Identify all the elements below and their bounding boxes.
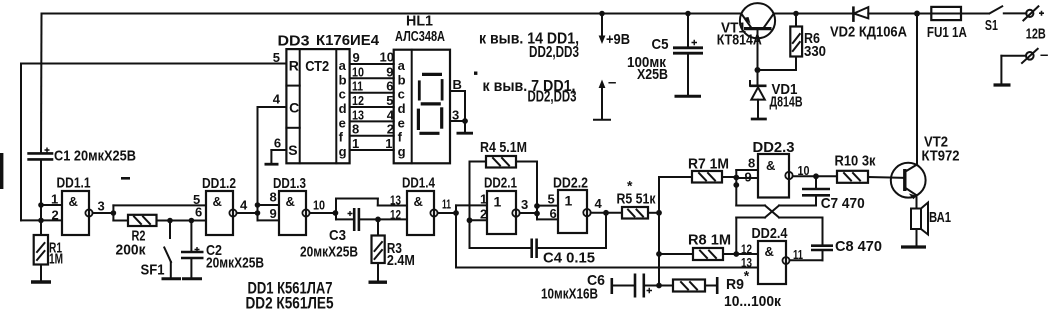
- svg-text:e: e: [398, 115, 405, 130]
- svg-text:HL1: HL1: [406, 14, 433, 30]
- resistor R9 10...100k adjustable: [659, 268, 781, 311]
- svg-text:СТ2: СТ2: [305, 59, 329, 75]
- svg-text:–: –: [1040, 47, 1048, 64]
- svg-text:6: 6: [195, 205, 202, 220]
- transistor VT2 KT972: [891, 135, 960, 209]
- wire DD3 d to HL1 pin5: [350, 93, 394, 108]
- svg-text:13: 13: [390, 193, 401, 208]
- pin 5 label DD3 R: [273, 50, 280, 65]
- svg-text:9: 9: [270, 206, 277, 221]
- wire cross-coupling C7 to DD2.4 input: [736, 206, 816, 255]
- svg-text:10: 10: [313, 198, 325, 213]
- svg-text:2: 2: [52, 208, 59, 223]
- wire to DD2.4 pin 13: [456, 267, 758, 269]
- capacitor C8 470: [790, 238, 883, 260]
- svg-text:Х25В: Х25В: [637, 66, 668, 83]
- svg-text:ВА1: ВА1: [929, 210, 951, 226]
- op-amp gate DD1.2: [193, 176, 248, 235]
- capacitor C7 470: [802, 176, 865, 212]
- op-amp gate DD2.4: [741, 226, 803, 284]
- svg-text:DD2 К561ЛЕ5: DD2 К561ЛЕ5: [246, 295, 334, 313]
- svg-text:13: 13: [741, 255, 752, 270]
- transistor VT1 KT814A: [717, 3, 775, 70]
- svg-text:10: 10: [380, 50, 394, 65]
- junction node DD1.1 pin1: [38, 202, 62, 208]
- resistor R3 2.4M: [372, 236, 415, 282]
- svg-text:10...100к: 10...100к: [724, 293, 781, 310]
- pin B of HL1: [450, 77, 465, 92]
- svg-text:a: a: [339, 58, 347, 73]
- svg-text:4: 4: [240, 198, 248, 213]
- svg-text:С3: С3: [329, 227, 346, 244]
- scan speck marks: [0, 72, 477, 190]
- switch SF1: [141, 221, 182, 279]
- svg-text:13: 13: [352, 107, 364, 122]
- resistor R2 200k: [116, 215, 207, 259]
- svg-text:g: g: [339, 144, 347, 159]
- svg-text:К176ИЕ4: К176ИЕ4: [316, 33, 379, 49]
- svg-text:DD2.4: DD2.4: [752, 226, 788, 242]
- svg-text:C: C: [289, 100, 299, 116]
- wire DD3 a to HL1 pin10: [350, 50, 394, 66]
- svg-text:R5 51к: R5 51к: [617, 191, 656, 208]
- svg-text:330: 330: [804, 43, 826, 60]
- svg-text:10: 10: [352, 64, 364, 79]
- wire DD3 e to HL1 pin4: [350, 107, 395, 122]
- node +9B flag arrow: [599, 14, 631, 49]
- connector +12V: [1004, 6, 1046, 42]
- svg-text:&: &: [765, 244, 774, 259]
- svg-text:12: 12: [352, 93, 364, 108]
- junction DD2.2 output: [591, 210, 622, 216]
- ground below BA1: [901, 245, 926, 248]
- svg-text:С5: С5: [652, 36, 669, 53]
- capacitor C3 20mkX25V: [300, 208, 378, 261]
- svg-text:e: e: [339, 115, 346, 130]
- svg-text:1: 1: [480, 192, 487, 207]
- op-amp gate DD1.4: [390, 176, 451, 236]
- resistor R8 1M: [656, 232, 758, 261]
- svg-text:1: 1: [385, 136, 392, 151]
- svg-text:–: –: [608, 74, 616, 91]
- svg-text:С1 20мкХ25В: С1 20мкХ25В: [54, 148, 136, 165]
- wire +9V top rail: [42, 13, 990, 15]
- svg-text:9: 9: [386, 64, 393, 79]
- capacitor C2 20mkX25V: [181, 221, 264, 279]
- resistor R5 51k: [617, 178, 660, 219]
- switch S1: [985, 6, 1002, 34]
- ground top right: [994, 83, 1011, 86]
- svg-text:9: 9: [745, 170, 752, 185]
- junction SF1 top: [167, 218, 173, 224]
- wire DD3 c to HL1 pin6: [350, 79, 394, 94]
- svg-text:6: 6: [550, 206, 557, 221]
- junction VT1 base / R6 / VD1: [755, 67, 761, 73]
- svg-text:1: 1: [565, 193, 573, 209]
- wire DD2.3 output to R10: [793, 173, 837, 179]
- svg-text:4: 4: [595, 196, 603, 211]
- junction on +9V rail at x=796: [793, 11, 799, 17]
- seven segment digit inside HL1: [418, 74, 442, 133]
- svg-text:20мкХ25В: 20мкХ25В: [206, 255, 264, 272]
- svg-text:20мкХ25В: 20мкХ25В: [300, 244, 358, 261]
- svg-text:DD2.1: DD2.1: [484, 176, 517, 192]
- svg-text:КТ972: КТ972: [922, 149, 960, 165]
- capacitor C6 10mkX16V: [541, 272, 659, 303]
- svg-text:DD1.4: DD1.4: [402, 176, 435, 192]
- wire DD1.3 output node: [310, 199, 407, 220]
- svg-text:11: 11: [352, 79, 363, 94]
- wire DD1.1 output node: [93, 205, 206, 220]
- label k vyv. 7 DD1, DD2, DD3: [483, 78, 577, 106]
- speaker BA1: [911, 203, 951, 247]
- junction C6 / R9: [656, 283, 662, 289]
- svg-text:Д814В: Д814В: [770, 95, 803, 111]
- svg-text:DD3: DD3: [278, 34, 310, 50]
- resistor R7 1M: [688, 156, 736, 183]
- zener diode VD1 D814V: [750, 70, 803, 119]
- svg-text:&: &: [69, 194, 78, 209]
- svg-text:С4 0.15: С4 0.15: [543, 250, 595, 267]
- svg-text:С8 470: С8 470: [835, 238, 882, 255]
- wire R5 output node vertical: [656, 177, 692, 286]
- capacitor C5 100mk X25V: [627, 14, 703, 97]
- junction on +9V rail at x=688: [685, 11, 691, 17]
- ground below R3: [369, 281, 388, 284]
- resistor R4 5.1M feedback: [470, 139, 538, 248]
- svg-text:В: В: [453, 77, 462, 92]
- svg-text:f: f: [339, 130, 344, 145]
- svg-text:VD2 КД106А: VD2 КД106А: [830, 25, 907, 41]
- svg-text:5: 5: [273, 50, 280, 65]
- ground below R1: [31, 280, 51, 283]
- svg-text:8: 8: [748, 156, 755, 171]
- svg-text:FU1 1А: FU1 1А: [927, 25, 967, 41]
- display HL1 ALS348A: [394, 14, 450, 164]
- svg-text:9: 9: [353, 50, 360, 65]
- svg-text:1: 1: [51, 192, 58, 207]
- svg-text:200к: 200к: [116, 242, 146, 259]
- wire DD2.1 output node junctions: [520, 203, 558, 219]
- svg-text:10мкХ16В: 10мкХ16В: [541, 286, 598, 303]
- label k vyv. 14 DD1, DD2, DD3: [479, 31, 579, 62]
- svg-text:11: 11: [442, 197, 451, 212]
- svg-text:1: 1: [494, 194, 502, 210]
- op-amp gate DD2.3: [745, 140, 810, 198]
- svg-text:c: c: [339, 87, 346, 102]
- svg-text:d: d: [339, 101, 347, 116]
- junction on +9V rail at x=602: [599, 11, 605, 17]
- wire VD2 node to VT2 collector: [916, 14, 918, 165]
- svg-text:&: &: [213, 194, 222, 209]
- fuse FU1 1A: [927, 7, 967, 41]
- svg-text:b: b: [339, 72, 347, 87]
- pin 6 DD3 S with termination: [265, 136, 287, 165]
- svg-text:6: 6: [274, 136, 281, 151]
- svg-text:8: 8: [352, 122, 359, 137]
- connector -12V with ground: [1001, 47, 1048, 85]
- op-amp gate DD1.3: [270, 176, 326, 235]
- svg-text:2.4М: 2.4М: [387, 252, 415, 269]
- label DD1 K561LA7: [248, 280, 333, 298]
- svg-text:R: R: [289, 58, 299, 74]
- svg-text:S1: S1: [985, 18, 998, 34]
- counter DD3 K176IE4 box CT2: [278, 33, 380, 163]
- svg-text:R4 5.1М: R4 5.1М: [480, 139, 527, 156]
- wire DD3 g to HL1 pin1: [350, 136, 394, 151]
- svg-text:g: g: [398, 144, 406, 159]
- pin 3 of HL1 with termination: [450, 91, 473, 133]
- svg-text:1: 1: [352, 136, 359, 151]
- wire DD3 b to HL1 pin9: [350, 64, 394, 79]
- junction R4 left / DD2.1 pin2: [467, 217, 487, 223]
- svg-text:R9: R9: [726, 276, 744, 293]
- wire DD1.4 output node: [438, 205, 487, 267]
- svg-text:DD2,DD3: DD2,DD3: [528, 89, 577, 106]
- svg-text:2: 2: [480, 207, 487, 222]
- svg-text:+9В: +9В: [606, 31, 630, 48]
- svg-text:С7 470: С7 470: [821, 195, 865, 212]
- svg-text:3: 3: [521, 197, 528, 212]
- junction DD2.4 pin12: [733, 251, 739, 257]
- svg-text:DD1.2: DD1.2: [202, 176, 236, 192]
- capacitor C1 20mkX25V: [27, 14, 136, 221]
- op-amp gate DD2.1: [480, 176, 528, 235]
- wire DD1.2 output node to DD1.3 inputs and DD3 pin C: [237, 107, 287, 220]
- svg-text:SF1: SF1: [141, 262, 165, 279]
- junction on +9V rail at x=917: [914, 11, 920, 17]
- svg-text:5: 5: [386, 93, 393, 108]
- svg-text:&: &: [414, 194, 423, 209]
- svg-text:АЛС348А: АЛС348А: [395, 29, 445, 45]
- resistor R1 1M: [34, 220, 63, 281]
- svg-text:c: c: [398, 87, 405, 102]
- svg-text:6: 6: [386, 79, 393, 94]
- svg-text:R8 1М: R8 1М: [688, 232, 731, 249]
- svg-text:1М: 1М: [49, 251, 63, 268]
- svg-text:d: d: [398, 101, 406, 116]
- svg-text:DD1.3: DD1.3: [273, 176, 306, 192]
- label DD2 K561LE5: [246, 295, 334, 313]
- wire cross-coupling DD2.3 input to C8: [736, 206, 822, 245]
- svg-text:&: &: [766, 158, 775, 173]
- diode VD2 KD106A: [830, 6, 907, 40]
- svg-text:b: b: [398, 72, 406, 87]
- wire rail to DD3 pin R: [21, 64, 286, 221]
- capacitor C4 0.15: [470, 213, 607, 267]
- svg-text:4: 4: [273, 92, 281, 107]
- svg-text:DD1.1: DD1.1: [57, 176, 91, 192]
- pin 4 label DD3 C: [273, 92, 281, 107]
- svg-text:КТ814А: КТ814А: [717, 33, 762, 49]
- svg-text:&: &: [286, 194, 295, 209]
- node minus flag arrow: [594, 74, 616, 120]
- junction node DD1.1 pin2: [38, 218, 62, 224]
- svg-text:8: 8: [270, 190, 277, 205]
- resistor R6 330: [758, 14, 827, 71]
- junction C3 / R3 / DD1.4 pin12: [375, 217, 407, 236]
- svg-text:DD2,DD3: DD2,DD3: [529, 44, 579, 61]
- wire DD3 f to HL1 pin2: [350, 122, 394, 137]
- svg-text:S: S: [288, 142, 297, 158]
- op-amp gate DD2.2: [548, 176, 603, 234]
- svg-text:12: 12: [390, 207, 401, 222]
- svg-text:f: f: [398, 130, 403, 145]
- junction C2 top: [189, 218, 195, 224]
- svg-text:3: 3: [98, 199, 105, 214]
- svg-text:5: 5: [548, 192, 555, 207]
- svg-text:12В: 12В: [1026, 26, 1046, 43]
- resistor R10 3k: [835, 153, 904, 183]
- wire DD2.3 input node: [733, 170, 758, 206]
- svg-text:a: a: [398, 58, 406, 73]
- svg-text:R10 3к: R10 3к: [835, 153, 876, 170]
- op-amp gate DD1.1: [51, 176, 105, 236]
